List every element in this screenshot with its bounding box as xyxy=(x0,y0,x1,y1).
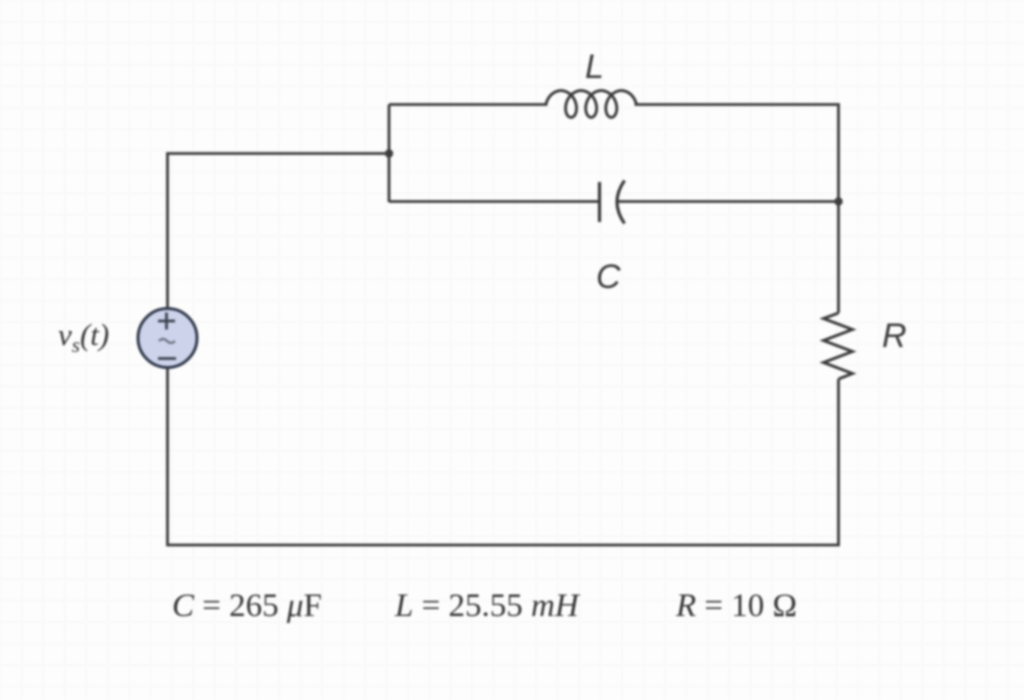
node junction dot right xyxy=(834,197,842,205)
capacitor C right curved plate xyxy=(617,181,625,224)
wire: branch vertical xyxy=(388,105,391,203)
wire: resistor to bottom, bottom wire, left vertical xyxy=(168,368,839,545)
voltage source vs circle xyxy=(138,309,197,368)
minus sign inside source xyxy=(158,357,176,360)
wire: bottom branch to capacitor xyxy=(389,200,599,203)
value C = 265 uF xyxy=(172,588,322,625)
wire: top branch left xyxy=(389,103,548,106)
wire: source top to mid node xyxy=(168,154,390,309)
resistor R zigzag xyxy=(824,313,853,379)
label C xyxy=(596,258,621,297)
wire: top branch right xyxy=(635,105,839,202)
label vs(t) xyxy=(58,317,109,358)
label L xyxy=(585,48,604,87)
value R = 10 Ohm xyxy=(676,588,797,625)
value L = 25.55 mH xyxy=(395,588,579,625)
inductor L xyxy=(546,91,637,118)
node junction dot left xyxy=(385,149,393,157)
capacitor C left plate xyxy=(598,182,601,222)
wire: right vertical to resistor xyxy=(837,202,840,314)
plus sign inside source xyxy=(158,313,175,330)
label R xyxy=(882,317,907,356)
tilde inside source xyxy=(159,339,175,343)
wire: capacitor to right node xyxy=(617,200,839,203)
